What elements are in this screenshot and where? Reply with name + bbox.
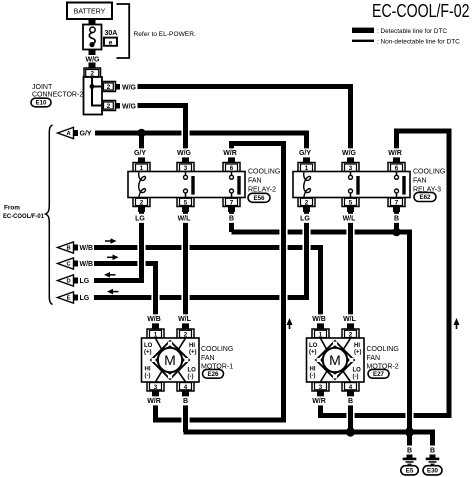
wire G/Y main run [95, 131, 181, 136]
svg-text:FAN: FAN [248, 178, 262, 185]
svg-text:B: B [394, 216, 399, 223]
wire W/R relay-2 pin 6 stub [229, 144, 234, 158]
label G/Y pin1 relay-3 [297, 148, 312, 157]
svg-text:LO: LO [309, 343, 318, 349]
wire B relay-2 pin 7 down [229, 212, 234, 232]
svg-text:2: 2 [107, 84, 111, 91]
wire fuse to W/G [89, 50, 96, 56]
wire battery to fuse [89, 19, 96, 25]
svg-text:1: 1 [154, 332, 158, 339]
svg-text:B: B [430, 448, 435, 455]
relay COOLING FAN RELAY-3 pin 7 [388, 198, 405, 207]
relay COOLING FAN RELAY-2 pin 1 [138, 157, 145, 163]
wire W/R relay-3 pin 6 top run [394, 129, 452, 134]
wire W/R riser left [281, 144, 286, 421]
wire W/R riser right [447, 131, 452, 416]
label W/L pin5 relay-3 [341, 214, 356, 223]
motor COOLING FAN MOTOR-2 pin 4 [342, 382, 359, 391]
wire row C W/B [94, 261, 137, 266]
wire W/G upper run to relay-3 pin 3 [138, 84, 354, 89]
svg-text:LG: LG [300, 216, 310, 223]
svg-text:LG: LG [135, 216, 145, 223]
relay COOLING FAN RELAY-3 pin 5 [342, 198, 359, 207]
svg-text:7: 7 [230, 200, 234, 207]
svg-text:RELAY-2: RELAY-2 [248, 187, 276, 194]
motor COOLING FAN MOTOR-2 windings [321, 338, 328, 350]
svg-text:COOLING: COOLING [248, 169, 280, 176]
svg-text:LO: LO [353, 368, 362, 374]
motor COOLING FAN MOTOR-1 pin 2 [182, 323, 189, 330]
relay COOLING FAN RELAY-2 contact at pin 6 [231, 172, 233, 176]
ground E5 [407, 455, 413, 459]
svg-text:4: 4 [184, 384, 188, 391]
joint connector pin 2 out upper [102, 82, 116, 92]
svg-text:HI: HI [310, 367, 316, 373]
label B motor-2 pin4 [347, 396, 354, 405]
svg-text:(-): (-) [145, 373, 151, 379]
svg-text:B: B [407, 448, 412, 455]
relay COOLING FAN RELAY-2 pin 2 [133, 198, 150, 207]
svg-text:HI: HI [145, 367, 151, 373]
svg-text:2: 2 [349, 332, 353, 339]
svg-text:W/R: W/R [223, 150, 237, 157]
label LG pin2 relay-2 [134, 214, 145, 223]
connector D [58, 275, 74, 286]
svg-text:(-): (-) [188, 374, 194, 380]
svg-text:1: 1 [305, 165, 309, 172]
relay COOLING FAN RELAY-2 pin 3 [182, 157, 189, 163]
svg-text:3: 3 [349, 165, 353, 172]
label W/R motor-1 pin3 [146, 396, 161, 405]
wire B bottom run to grounds [184, 430, 436, 435]
relay COOLING FAN RELAY-2 pin 6 [228, 157, 235, 163]
motor COOLING FAN MOTOR-2 pin 3 [312, 382, 329, 391]
label W/L pin5 relay-2 [176, 214, 191, 223]
svg-text:(+): (+) [309, 350, 317, 356]
svg-text:G/Y: G/Y [80, 131, 92, 138]
relay COOLING FAN RELAY-3 pin 2 [298, 198, 315, 207]
svg-text:G/Y: G/Y [299, 150, 311, 157]
svg-text:5: 5 [184, 200, 188, 207]
svg-text:3: 3 [154, 384, 158, 391]
motor COOLING FAN MOTOR-2 pin 2 [347, 323, 354, 330]
svg-text:W/L: W/L [343, 216, 357, 223]
svg-text:E10: E10 [35, 100, 47, 107]
motor COOLING FAN MOTOR-1 pin 4 [177, 382, 194, 391]
svg-text:W/G: W/G [122, 84, 137, 91]
wire row B W/B [94, 245, 137, 250]
svg-text:W/R: W/R [147, 398, 161, 405]
svg-text:(-): (-) [353, 374, 359, 380]
label W/B motor-2 pin1 [311, 314, 326, 323]
svg-text:3: 3 [184, 165, 188, 172]
svg-text:FAN: FAN [413, 178, 427, 185]
svg-text:LO: LO [188, 368, 197, 374]
arrow riser right [454, 318, 460, 325]
node B junction grounds [405, 427, 414, 436]
connector E26 [203, 369, 224, 378]
svg-text:D: D [66, 279, 70, 285]
arrow row D [109, 274, 116, 276]
internal junction node [90, 84, 95, 89]
wire W/B row B down to motor-2 pin 1 [318, 248, 323, 323]
svg-text:E30: E30 [427, 468, 439, 475]
svg-text:6: 6 [395, 165, 399, 172]
svg-text:W/B: W/B [147, 316, 161, 323]
svg-text:JOINT: JOINT [32, 84, 53, 91]
svg-text:: Non-detectable line for DTC: : Non-detectable line for DTC [377, 39, 460, 46]
svg-text:COOLING: COOLING [201, 346, 233, 353]
relay COOLING FAN RELAY-2 contact at pin 3 [185, 172, 187, 176]
svg-text:FAN: FAN [201, 355, 215, 362]
relay COOLING FAN RELAY-3 pin 3 [347, 157, 354, 163]
svg-text:From: From [4, 205, 20, 212]
motor COOLING FAN MOTOR-1 M symbol [158, 348, 182, 372]
wire LG relay-2 pin 2 to row D [139, 212, 144, 283]
legend detectable line [352, 28, 374, 33]
wire row D LG [94, 278, 144, 283]
legend non-detectable line [352, 40, 374, 42]
label B motor-1 pin4 [182, 396, 189, 405]
wire B main down to ground E5 [407, 232, 412, 446]
svg-text:2: 2 [107, 103, 111, 110]
svg-text:W/B: W/B [80, 245, 94, 252]
svg-text:W/L: W/L [178, 316, 192, 323]
connector E10 [31, 98, 51, 107]
relay COOLING FAN RELAY-3 body [293, 172, 410, 198]
wire G/Y to relay-2 pin 1 [139, 133, 144, 157]
svg-text:LG: LG [80, 278, 90, 285]
wire B relay-3 pin 7 down [394, 212, 399, 232]
wire B net relays pin 7 [232, 230, 280, 235]
label B ground E5 [406, 446, 413, 455]
motor COOLING FAN MOTOR-1 windings [156, 338, 163, 350]
svg-text:M: M [164, 352, 176, 368]
svg-text:HI: HI [354, 343, 360, 349]
svg-text:B: B [348, 398, 353, 405]
wire W/L relay-2 pin 5 to motor-1 pin 2 [183, 212, 188, 323]
wire W/G to joint connector [89, 63, 96, 69]
wire W/R motor-2 pin 3 down [318, 397, 323, 416]
label W/R pin6 relay-2 [222, 148, 237, 157]
connector A [58, 127, 74, 138]
svg-text:EC-COOL/F-02: EC-COOL/F-02 [372, 1, 470, 21]
svg-text:E26: E26 [207, 371, 219, 378]
svg-text:E27: E27 [373, 371, 385, 378]
svg-text:(-): (-) [310, 373, 316, 379]
wire W/B row C down to motor-1 pin 1 [153, 264, 158, 323]
arrow row B [105, 240, 112, 242]
svg-text:HI: HI [189, 343, 195, 349]
node B junction at relay-3 [392, 228, 401, 237]
relay COOLING FAN RELAY-2 coil [139, 172, 146, 196]
joint connector body [84, 77, 103, 115]
svg-text:G/Y: G/Y [134, 150, 146, 157]
svg-text:Refer to EL-POWER.: Refer to EL-POWER. [134, 31, 196, 38]
label W/L motor-2 pin2 [342, 314, 357, 323]
label W/B motor-1 pin1 [146, 314, 161, 323]
svg-text:6: 6 [230, 165, 234, 172]
svg-text:1: 1 [319, 332, 323, 339]
svg-text:5: 5 [349, 200, 353, 207]
svg-text:W/R: W/R [312, 398, 326, 405]
arrow row E [112, 291, 119, 293]
connector E [58, 292, 74, 303]
wire W/R motor-1 pin 3 down [153, 397, 158, 421]
connector B [58, 242, 74, 253]
motor COOLING FAN MOTOR-2 body [307, 338, 365, 382]
label W/G pin3 relay-3 [341, 148, 356, 157]
svg-text:(+): (+) [354, 350, 362, 356]
label W/G pin3 relay-2 [176, 148, 191, 157]
wire B motor-2 pin 4 down [348, 397, 353, 433]
relay COOLING FAN RELAY-3 pin 6 [393, 157, 400, 163]
svg-text:W/G: W/G [86, 56, 101, 63]
relay COOLING FAN RELAY-3 contact at pin 6 [396, 172, 398, 176]
from EC-COOL/F-01 brace [46, 125, 53, 305]
wire W/G down to relay-3 pin 3 [348, 87, 353, 158]
label G/Y pin1 relay-2 [132, 148, 147, 157]
motor COOLING FAN MOTOR-1 body [142, 338, 200, 382]
svg-text:C: C [66, 262, 70, 268]
connector C [58, 258, 74, 269]
wire B motor-1 pin 4 down [183, 397, 188, 433]
fuse 30A e [83, 25, 102, 50]
relay COOLING FAN RELAY-3 pin 1 [303, 157, 310, 163]
motor COOLING FAN MOTOR-1 pin 3 [147, 382, 164, 391]
bracket [117, 4, 130, 58]
svg-text:LG: LG [80, 295, 90, 302]
svg-text:W/R: W/R [388, 150, 402, 157]
svg-text:COOLING: COOLING [367, 346, 399, 353]
svg-text:W/B: W/B [312, 316, 326, 323]
connector E27 [368, 369, 389, 378]
svg-text:E: E [67, 296, 71, 302]
svg-text:E56: E56 [253, 195, 265, 202]
svg-text:BATTERY: BATTERY [74, 9, 106, 16]
svg-text:(+): (+) [144, 350, 152, 356]
svg-text:W/G: W/G [177, 150, 192, 157]
label B ground E30 [429, 446, 436, 455]
wire LG relay-3 pin 2 to row E [304, 212, 309, 300]
svg-text:W/L: W/L [178, 216, 192, 223]
motor COOLING FAN MOTOR-1 pin 1 [152, 323, 159, 330]
node G/Y junction [137, 129, 146, 138]
label W/R pin6 relay-3 [387, 148, 402, 157]
svg-text:W/G: W/G [342, 150, 357, 157]
joint connector pin 2 out lower [102, 101, 116, 111]
svg-text:B: B [66, 246, 70, 252]
svg-text:EC-COOL/F-01: EC-COOL/F-01 [3, 213, 44, 220]
svg-text:: Detectable line for DTC: : Detectable line for DTC [377, 28, 447, 35]
node B junction motor-2 [346, 427, 355, 436]
svg-text:B: B [183, 398, 188, 405]
svg-text:1: 1 [140, 165, 144, 172]
ground E30 [430, 455, 436, 459]
label B pin7 relay-3 [393, 214, 400, 223]
svg-text:7: 7 [395, 200, 399, 207]
wire W/G lower run to relay-2 pin 3 [138, 103, 189, 108]
battery [67, 3, 112, 20]
svg-text:LO: LO [144, 343, 153, 349]
label W/R motor-2 pin3 [311, 396, 326, 405]
svg-text:COOLING: COOLING [413, 169, 445, 176]
svg-text:W/G: W/G [122, 103, 137, 110]
motor COOLING FAN MOTOR-2 M symbol [323, 348, 347, 372]
svg-text:2: 2 [184, 332, 188, 339]
svg-text:M: M [329, 352, 341, 368]
svg-text:3: 3 [319, 384, 323, 391]
svg-text:A: A [66, 131, 70, 137]
relay COOLING FAN RELAY-3 coil [304, 172, 311, 196]
svg-text:E5: E5 [406, 468, 414, 475]
wire W/L relay-3 pin 5 to motor-2 pin 2 [348, 212, 353, 323]
wire W/G down to relay-2 pin 3 [183, 103, 188, 157]
connector E56 [248, 193, 270, 202]
relay COOLING FAN RELAY-2 pin 5 [177, 198, 194, 207]
arrow riser left [287, 318, 293, 325]
label LG pin2 relay-3 [299, 214, 310, 223]
relay COOLING FAN RELAY-3 contact at pin 3 [350, 172, 352, 176]
svg-text:W/B: W/B [80, 261, 94, 268]
relay COOLING FAN RELAY-2 body [128, 172, 245, 198]
label B pin7 relay-2 [228, 214, 235, 223]
svg-text:(+): (+) [189, 350, 197, 356]
svg-text:W/L: W/L [343, 316, 357, 323]
connector E62 [414, 193, 436, 202]
wire W/R relay-3 pin 6 stub [394, 131, 399, 157]
svg-text:FAN: FAN [367, 355, 381, 362]
wire W/R motor-2 bottom run [318, 413, 346, 418]
wire row E LG [94, 295, 151, 300]
label W/L motor-1 pin2 [177, 314, 192, 323]
svg-text:2: 2 [305, 200, 309, 207]
svg-text:B: B [229, 216, 234, 223]
internal bus wire [91, 77, 93, 107]
wire W/R relay-2 pin 6 run [229, 141, 286, 146]
svg-text:e: e [109, 39, 113, 46]
wire G/Y to relay-3 pin 1 [304, 133, 309, 157]
wire W/R motor-1 bottom run [153, 418, 181, 423]
joint connector pin 2 top [84, 68, 101, 77]
svg-text:30A: 30A [105, 30, 118, 37]
svg-text:E62: E62 [419, 194, 431, 201]
wire B stub to ground E30 [430, 430, 435, 446]
svg-text:4: 4 [349, 384, 353, 391]
relay COOLING FAN RELAY-2 pin 7 [223, 198, 240, 207]
motor COOLING FAN MOTOR-2 pin 1 [317, 323, 324, 330]
arrow row C [107, 257, 114, 259]
svg-text:2: 2 [140, 200, 144, 207]
